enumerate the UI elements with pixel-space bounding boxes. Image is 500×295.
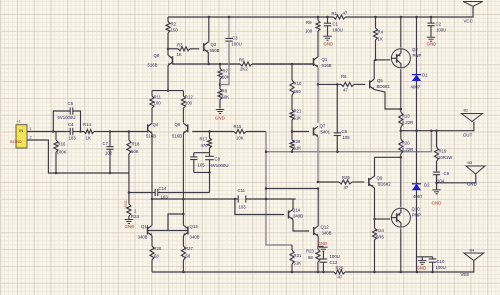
- svg-text:R5: R5: [239, 58, 245, 63]
- resistor R9 100: [305, 17, 320, 57]
- ground GND under R8: [215, 110, 225, 121]
- junction rail R27: [182, 271, 185, 274]
- junction out fb: [430, 129, 433, 132]
- resistor R28 51K: [290, 132, 301, 152]
- resistor R7 50K: [218, 64, 230, 85]
- svg-text:Q9: Q9: [377, 176, 383, 181]
- junction fb mid: [265, 187, 268, 190]
- svg-text:R19: R19: [439, 149, 447, 154]
- svg-text:R16: R16: [58, 142, 66, 147]
- svg-text:R7: R7: [223, 69, 229, 74]
- svg-text:340B: 340B: [190, 235, 200, 240]
- svg-text:R12: R12: [185, 95, 193, 100]
- wire Q2 collector: [400, 17, 402, 48]
- wire Q6 base to feedback: [192, 131, 233, 133]
- svg-text:R28: R28: [293, 139, 301, 144]
- svg-text:INGND: INGND: [10, 140, 22, 144]
- svg-text:1K: 1K: [177, 52, 182, 57]
- svg-text:Q4: Q4: [153, 122, 159, 127]
- resistor R15 10K: [233, 124, 266, 141]
- transistor Q1 516B: [314, 57, 332, 68]
- transistor Q7 5401: [314, 124, 331, 137]
- svg-text:51K: 51K: [294, 116, 302, 121]
- junction R21/R28: [291, 130, 294, 133]
- junction R7/R8/C3: [219, 83, 222, 86]
- svg-text:VCC: VCC: [464, 19, 473, 24]
- capacitor C8 feedback pair: [190, 153, 228, 193]
- terminal B1 VCC: [463, 2, 483, 24]
- resistor R24 5R6: [373, 228, 385, 272]
- wire Q1 emitter to Q7: [317, 67, 319, 123]
- svg-text:+1: +1: [17, 120, 21, 124]
- transistor Q5 BD681: [370, 78, 391, 90]
- svg-text:B2: B2: [464, 109, 469, 113]
- resistor R4 1K: [374, 17, 384, 60]
- svg-text:C6: C6: [342, 129, 348, 134]
- wire Q14 base drop: [235, 199, 284, 215]
- svg-text:R29: R29: [336, 266, 344, 271]
- transistor Q10 PNP: [391, 207, 421, 228]
- junction output node: [400, 129, 403, 132]
- svg-text:102: 102: [105, 151, 113, 156]
- transistor Q8 516B: [148, 53, 173, 68]
- resistor R11 100: [150, 91, 162, 123]
- svg-text:R1: R1: [332, 11, 338, 16]
- wire Q3 collector: [208, 17, 210, 42]
- wire Q12 collector: [317, 189, 319, 226]
- svg-text:GND: GND: [432, 201, 442, 206]
- resistor R23 68: [306, 247, 320, 273]
- svg-text:R31: R31: [294, 253, 302, 258]
- junction R28 bottom: [291, 150, 294, 153]
- ground GND at Q12: [318, 241, 328, 251]
- ground GND under C2: [427, 37, 437, 46]
- capacitor C5 bypass loop: [53, 101, 80, 132]
- wire tail line: [152, 90, 183, 92]
- wire Q11 collector: [151, 199, 153, 225]
- svg-text:PNP: PNP: [412, 213, 421, 218]
- junction C1 rail: [326, 16, 329, 19]
- svg-text:C5: C5: [68, 101, 74, 106]
- svg-text:68: 68: [308, 255, 313, 260]
- svg-text:6V1000U: 6V1000U: [211, 163, 229, 168]
- svg-text:GND: GND: [324, 42, 334, 47]
- resistor R10 560: [290, 64, 302, 110]
- svg-text:4007: 4007: [413, 194, 423, 199]
- resistor R13 0.22R: [399, 109, 413, 131]
- connector J1 IN: [10, 120, 32, 149]
- diode D2 4007: [412, 131, 430, 272]
- svg-text:100U: 100U: [330, 254, 340, 259]
- junction fb low: [265, 198, 268, 201]
- svg-text:2: 2: [30, 136, 32, 140]
- wire Q5 collector: [373, 60, 375, 79]
- svg-text:GND: GND: [318, 241, 328, 246]
- svg-text:340B: 340B: [293, 214, 303, 219]
- svg-text:R9: R9: [306, 20, 312, 25]
- wire Q8 collector: [167, 49, 169, 55]
- svg-text:C11: C11: [238, 188, 246, 193]
- svg-text:4007: 4007: [411, 85, 421, 90]
- junction rail Q10e: [400, 271, 403, 274]
- wire Q9 collector: [373, 157, 401, 177]
- svg-text:VSS: VSS: [123, 200, 128, 208]
- svg-text:R17: R17: [200, 137, 208, 142]
- svg-text:Q8: Q8: [154, 53, 160, 58]
- capacitor C2 100U: [427, 17, 446, 37]
- svg-text:103: 103: [239, 205, 247, 210]
- capacitor C12 with ground: [318, 247, 340, 273]
- svg-text:5R6: 5R6: [376, 235, 384, 240]
- capacitor C11 103: [238, 188, 247, 210]
- wire Q8 emitter: [167, 66, 169, 91]
- junction rail C10: [431, 271, 434, 274]
- svg-text:R3: R3: [177, 43, 183, 48]
- svg-text:68: 68: [154, 254, 159, 259]
- wire C9 to GND terminal: [437, 174, 476, 183]
- svg-text:47: 47: [343, 11, 348, 16]
- ground GND at C10: [417, 261, 427, 271]
- svg-text:Q2: Q2: [412, 47, 418, 52]
- terminal B4 VEE: [461, 249, 484, 278]
- capacitor C9 104: [433, 171, 450, 189]
- wire Q10 base: [375, 218, 391, 220]
- junction Q4c mirror: [151, 198, 154, 201]
- junction feedback node: [208, 130, 211, 133]
- junction rail R31: [291, 271, 294, 274]
- svg-text:C4: C4: [68, 122, 74, 127]
- junction out zobel: [435, 129, 438, 132]
- resistor R5 2K2: [229, 58, 313, 72]
- resistor R14 1K: [77, 122, 110, 141]
- transistor Q11 340B: [138, 224, 153, 240]
- svg-text:IN: IN: [19, 128, 23, 133]
- resistor R17 470: [200, 132, 212, 153]
- resistor R12 100: [181, 91, 193, 123]
- wire Q4 collector: [151, 134, 153, 200]
- svg-text:100: 100: [185, 101, 193, 106]
- svg-text:GND: GND: [417, 266, 427, 271]
- junction R10 top: [291, 63, 294, 66]
- resistor R1: [332, 11, 348, 20]
- svg-text:C14: C14: [159, 186, 167, 191]
- svg-text:R18: R18: [132, 142, 140, 147]
- capacitor C7 102: [103, 132, 114, 174]
- junction Q2c rail: [400, 16, 403, 19]
- svg-text:R14: R14: [83, 122, 91, 127]
- junction R20 bottom: [400, 156, 403, 159]
- svg-text:BD682: BD682: [378, 182, 392, 187]
- junction Q8e tail: [167, 89, 170, 92]
- wire Q10 emitter: [400, 228, 402, 272]
- wire output line: [401, 122, 474, 131]
- svg-text:R25: R25: [342, 175, 350, 180]
- svg-text:51K: 51K: [294, 146, 302, 151]
- svg-text:R23: R23: [306, 249, 314, 254]
- capacitor C6 105: [334, 84, 351, 151]
- svg-text:R13: R13: [402, 114, 410, 119]
- svg-text:516B: 516B: [148, 63, 158, 68]
- wire Q5 emitter: [374, 90, 401, 109]
- transistor Q14 340B: [289, 208, 304, 220]
- wire Q6 collector: [182, 134, 184, 200]
- svg-text:50K: 50K: [131, 149, 139, 154]
- svg-text:100: 100: [154, 101, 162, 106]
- transistor Q6 516B: [172, 122, 188, 139]
- svg-text:C2: C2: [436, 22, 442, 27]
- junction C7 bottom: [109, 172, 112, 175]
- wire feedback long line: [266, 131, 431, 152]
- wire VEE rail: [152, 261, 474, 273]
- svg-text:105: 105: [198, 163, 206, 168]
- svg-text:10K: 10K: [236, 136, 244, 141]
- svg-text:Q6: Q6: [175, 122, 181, 127]
- svg-text:B3: B3: [468, 161, 473, 165]
- svg-text:C8: C8: [215, 157, 221, 162]
- wire Q2 emitter: [400, 69, 402, 109]
- wire input pin1: [27, 131, 66, 133]
- junction Q5e join: [400, 108, 403, 111]
- wire mirror bus: [152, 198, 296, 200]
- resistor R3 1K: [168, 43, 199, 58]
- svg-text:470: 470: [201, 143, 209, 148]
- junction C3 rail: [228, 16, 231, 19]
- svg-text:R2: R2: [171, 22, 177, 27]
- junction C6 bottom: [336, 150, 339, 153]
- diode D1 4007: [411, 17, 429, 131]
- svg-text:R24: R24: [376, 228, 384, 233]
- svg-text:105: 105: [343, 135, 351, 140]
- svg-text:1K: 1K: [378, 37, 383, 42]
- junction R2/R3: [167, 48, 170, 51]
- resistor R18 50K: [127, 132, 140, 193]
- wire mirror base tie: [148, 214, 188, 231]
- svg-text:1: 1: [30, 127, 32, 131]
- transistor Q9 BD682: [369, 176, 391, 188]
- svg-text:R20: R20: [402, 141, 410, 146]
- svg-text:B4: B4: [470, 249, 475, 253]
- resistor R2 150: [166, 17, 178, 49]
- svg-text:100U: 100U: [436, 28, 446, 33]
- svg-text:100K: 100K: [57, 150, 67, 155]
- svg-text:50K: 50K: [222, 95, 230, 100]
- junction R18/C14: [128, 191, 131, 194]
- junction Q3 collector rail: [208, 16, 211, 19]
- svg-text:GND: GND: [467, 182, 477, 187]
- svg-text:R8: R8: [222, 89, 228, 94]
- svg-text:0.22R: 0.22R: [402, 120, 413, 125]
- wire fb mid line: [266, 188, 318, 190]
- junction Q7e R25: [317, 181, 320, 184]
- svg-text:100: 100: [305, 29, 313, 34]
- capacitor C14 103: [129, 186, 210, 200]
- wire Q7 emitter: [317, 137, 319, 182]
- svg-text:Q11: Q11: [141, 224, 149, 229]
- resistor R19 10R1W: [435, 131, 454, 172]
- resistor R20 0.22R: [399, 131, 413, 158]
- resistor R25 47: [318, 175, 364, 190]
- svg-text:D1: D1: [422, 73, 428, 78]
- ground GND under C9: [432, 190, 442, 206]
- svg-text:51K: 51K: [294, 261, 302, 266]
- svg-text:R27: R27: [185, 246, 193, 251]
- wire VCC rail: [168, 6, 473, 17]
- svg-text:0.22R: 0.22R: [402, 147, 413, 152]
- svg-text:D2: D2: [424, 183, 430, 188]
- wire Q14 emitter: [293, 220, 309, 231]
- svg-text:R4: R4: [378, 30, 384, 35]
- svg-text:Q1: Q1: [322, 57, 328, 62]
- svg-text:47: 47: [344, 185, 349, 190]
- ground GND under R24: [125, 220, 135, 230]
- wire Q14 collector: [292, 199, 294, 209]
- svg-text:100U: 100U: [232, 42, 242, 47]
- svg-text:340B: 340B: [322, 231, 332, 236]
- wire input to Q4: [110, 131, 148, 133]
- svg-text:R24: R24: [131, 214, 139, 219]
- wire Q9 emitter: [373, 187, 374, 228]
- junction rail R23: [317, 271, 320, 274]
- junction C8 bottom: [208, 171, 211, 174]
- svg-text:103: 103: [69, 136, 77, 141]
- resistor R21 51K: [290, 109, 302, 132]
- transistor Q13 340B: [183, 224, 200, 240]
- resistor R31 51K: [290, 245, 302, 272]
- svg-text:C10: C10: [437, 259, 445, 264]
- wire bias line y64: [173, 63, 314, 65]
- capacitor C10 loop with ground: [417, 257, 446, 272]
- junction C5 left: [52, 130, 55, 133]
- terminal B3 GND: [466, 161, 485, 187]
- terminal B2 OUT: [462, 109, 483, 138]
- junction rail Dchain: [416, 271, 419, 274]
- svg-text:C7: C7: [103, 141, 109, 146]
- resistor R29: [334, 266, 345, 280]
- svg-text:Q13: Q13: [190, 224, 199, 229]
- svg-text:R11: R11: [154, 95, 162, 100]
- svg-text:R21: R21: [294, 109, 302, 114]
- transistor Q3 550B: [204, 42, 220, 53]
- svg-text:GND: GND: [427, 42, 437, 47]
- svg-text:Q5: Q5: [377, 78, 383, 83]
- junction fb corner: [265, 150, 268, 153]
- svg-text:R15: R15: [234, 124, 242, 129]
- svg-text:GND: GND: [215, 116, 225, 121]
- ground GND under C1: [323, 36, 333, 46]
- junction C11 drop: [234, 198, 237, 201]
- junction Q7e fbline: [317, 187, 320, 190]
- capacitor C3 100U: [225, 17, 241, 47]
- svg-text:5401: 5401: [321, 130, 331, 135]
- svg-text:R10: R10: [294, 81, 302, 86]
- wire input pin2 ground return: [27, 140, 129, 173]
- junction R9 rail: [317, 16, 320, 19]
- junction Q3e: [208, 63, 211, 66]
- svg-text:550B: 550B: [210, 48, 220, 53]
- svg-text:C12: C12: [330, 260, 338, 265]
- junction Q2 base: [374, 59, 377, 62]
- resistor R8 50K: [218, 85, 229, 109]
- svg-text:2K2: 2K2: [240, 67, 248, 72]
- svg-text:560: 560: [294, 89, 302, 94]
- svg-text:Q10: Q10: [412, 207, 421, 212]
- svg-text:C1: C1: [333, 22, 339, 27]
- svg-text:1K: 1K: [86, 136, 91, 141]
- junction C7 top: [109, 130, 112, 133]
- junction R7 top: [219, 63, 222, 66]
- wire Q10 collector: [400, 157, 402, 207]
- junction D1 rail: [415, 16, 418, 19]
- junction C6 top: [336, 83, 339, 86]
- junction driver tap: [317, 83, 320, 86]
- transistor Q4 516B: [146, 122, 159, 139]
- net VSS: [123, 200, 128, 208]
- junction C2 rail: [430, 16, 433, 19]
- svg-text:C9: C9: [444, 171, 450, 176]
- svg-text:340B: 340B: [138, 235, 148, 240]
- junction rail R24b: [373, 271, 376, 274]
- junction out D: [415, 129, 418, 132]
- wire C3 to R7 bottom: [220, 44, 229, 85]
- svg-text:OUT: OUT: [463, 133, 473, 138]
- wire Q7 base: [292, 131, 309, 133]
- svg-text:150: 150: [171, 28, 179, 33]
- junction C9 gnd line: [435, 182, 438, 185]
- junction Q10 base: [373, 218, 376, 221]
- svg-text:Q7: Q7: [320, 124, 326, 129]
- svg-text:100U: 100U: [436, 265, 446, 270]
- svg-text:6V1000U: 6V1000U: [58, 115, 76, 120]
- wire Q13 collector: [182, 199, 184, 225]
- svg-text:GND: GND: [125, 224, 135, 229]
- wire Q12 emitter: [317, 236, 319, 246]
- wire feedback column: [266, 132, 292, 246]
- capacitor C1 100U: [324, 17, 343, 36]
- svg-text:BD681: BD681: [377, 84, 391, 89]
- svg-text:68: 68: [186, 254, 191, 259]
- resistor R26 68: [150, 236, 162, 272]
- capacitor C4 103: [66, 122, 77, 141]
- svg-text:R6: R6: [341, 74, 347, 79]
- junction R16 bottom: [55, 172, 58, 175]
- resistor R24 1K: [127, 193, 140, 220]
- svg-text:C3: C3: [232, 36, 238, 41]
- junction R18 top: [128, 130, 131, 133]
- svg-text:10R1W: 10R1W: [438, 155, 453, 160]
- wire Q2 base: [376, 59, 391, 61]
- svg-text:516B: 516B: [146, 134, 156, 139]
- junction Q6c mirror: [182, 198, 185, 201]
- svg-text:100U: 100U: [333, 28, 343, 33]
- svg-text:Q12: Q12: [321, 225, 330, 230]
- svg-text:47: 47: [343, 88, 348, 93]
- junction rail C12: [322, 271, 325, 274]
- svg-text:516B: 516B: [322, 63, 332, 68]
- resistor R16 100K: [54, 132, 67, 174]
- svg-text:516B: 516B: [172, 134, 182, 139]
- resistor R27 68: [181, 236, 193, 272]
- transistor Q12 340B: [314, 225, 332, 237]
- transistor Q2 PNP: [391, 47, 421, 68]
- svg-text:VEE: VEE: [461, 272, 470, 277]
- resistor R6 47: [318, 74, 365, 93]
- junction C5 right: [79, 130, 82, 133]
- svg-text:R26: R26: [154, 246, 162, 251]
- svg-text:47: 47: [338, 275, 343, 280]
- junction mirror tie: [182, 213, 185, 216]
- wire Q3 emitter: [207, 52, 209, 64]
- junction R4 rail: [374, 16, 377, 19]
